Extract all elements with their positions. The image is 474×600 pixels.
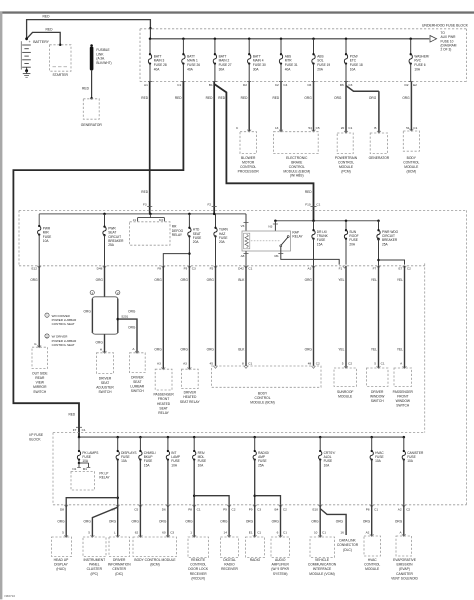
HTD SEAT fuse xyxy=(188,214,190,227)
generator xyxy=(83,99,99,119)
svg-text:ORG: ORG xyxy=(207,347,215,351)
svg-text:A2: A2 xyxy=(366,530,370,534)
svg-text:C1: C1 xyxy=(322,530,326,534)
sunroof module xyxy=(344,366,348,368)
svg-text:C2: C2 xyxy=(275,83,279,87)
svg-text:P8: P8 xyxy=(366,508,370,512)
svg-text:INFORMATION: INFORMATION xyxy=(108,563,131,567)
body control module BCM (middle) xyxy=(212,366,322,387)
svg-text:DOOR LOCK: DOOR LOCK xyxy=(188,567,209,571)
svg-text:C2: C2 xyxy=(283,508,287,512)
svg-text:CANISTER: CANISTER xyxy=(396,572,413,576)
svg-text:YEL: YEL xyxy=(397,347,403,351)
EVAP canister vent solenoid xyxy=(402,534,406,536)
svg-text:RED: RED xyxy=(43,15,51,19)
svg-text:ORG: ORG xyxy=(395,519,403,523)
svg-text:C1: C1 xyxy=(177,83,181,87)
TURN HAZ fuse xyxy=(215,214,217,227)
wire RED D2 to blower motor control processor xyxy=(248,82,250,132)
svg-text:F1: F1 xyxy=(339,266,343,270)
svg-text:E1: E1 xyxy=(249,530,253,534)
svg-text:D6: D6 xyxy=(340,83,344,87)
wire ORG A2 C2 to EVAP canister vent solenoid xyxy=(403,505,405,536)
svg-text:A8: A8 xyxy=(241,254,245,258)
svg-text:ORG: ORG xyxy=(154,278,162,282)
svg-text:MODULE: MODULE xyxy=(338,394,353,398)
svg-text:ORG: ORG xyxy=(305,278,313,282)
I/P lower bus wire xyxy=(79,436,405,438)
svg-text:N66710: N66710 xyxy=(5,594,16,598)
svg-text:PASSENGER: PASSENGER xyxy=(393,390,414,394)
svg-text:E12: E12 xyxy=(31,266,37,270)
svg-text:F8: F8 xyxy=(157,266,161,270)
svg-text:RECEIVER: RECEIVER xyxy=(190,572,207,576)
svg-text:VIEW: VIEW xyxy=(36,381,45,385)
svg-text:C2: C2 xyxy=(348,361,352,365)
svg-text:10: 10 xyxy=(314,530,318,534)
vehicle communication interface module VCIM xyxy=(318,535,322,537)
battery ground xyxy=(25,69,28,72)
svg-text:(RCDLR): (RCDLR) xyxy=(191,576,205,580)
INT LAMP fuse xyxy=(167,436,170,439)
CRTSY/ALDL fuse output xyxy=(319,460,321,505)
svg-text:RED: RED xyxy=(241,96,248,100)
wire ORG A3 to BCM pin 48 C2 xyxy=(313,266,315,366)
svg-text:1: 1 xyxy=(190,530,192,534)
svg-text:N1: N1 xyxy=(72,467,76,471)
HVAC fuse xyxy=(370,436,373,439)
svg-text:C1: C1 xyxy=(82,428,86,432)
pin F10 C1 xyxy=(311,206,317,208)
RAP relay switch feed N3 xyxy=(274,221,276,231)
DISPLAYS fuse xyxy=(116,436,119,439)
svg-text:F7: F7 xyxy=(373,266,377,270)
svg-text:SWITCH: SWITCH xyxy=(396,404,410,408)
PK LAMPS fuse to park lamp relay xyxy=(78,460,80,463)
svg-text:C3: C3 xyxy=(348,83,352,87)
svg-text:RED: RED xyxy=(305,190,312,194)
svg-text:C1: C1 xyxy=(283,530,287,534)
svg-text:D2: D2 xyxy=(405,83,409,87)
svg-text:ORG: ORG xyxy=(363,519,371,523)
I/P bus wire left xyxy=(38,214,40,226)
body control module BCM (top right) xyxy=(410,129,414,131)
branch 1 wire xyxy=(91,299,93,333)
RADIO fuse outputs xyxy=(254,460,256,505)
svg-text:CONTROL: CONTROL xyxy=(254,396,270,400)
svg-text:(IPC): (IPC) xyxy=(90,572,98,576)
svg-text:A1: A1 xyxy=(144,83,148,87)
svg-text:RED: RED xyxy=(82,87,90,91)
wire ORG F9 C3 to driver heated seat relay xyxy=(188,266,190,369)
PWR SEAT circuit breaker xyxy=(104,214,106,226)
underhood bus wire xyxy=(149,28,151,39)
svg-text:F10: F10 xyxy=(305,203,311,207)
wire RED B1 to F2 xyxy=(213,82,215,207)
svg-text:15A: 15A xyxy=(317,242,324,246)
svg-text:10A: 10A xyxy=(198,463,205,467)
CANISTER fuse output xyxy=(403,460,405,505)
svg-text:ORG: ORG xyxy=(305,347,313,351)
svg-text:C1: C1 xyxy=(374,508,378,512)
svg-text:60: 60 xyxy=(162,530,166,534)
svg-text:C3: C3 xyxy=(192,266,196,270)
svg-text:C2: C2 xyxy=(316,361,320,365)
svg-text:YEL: YEL xyxy=(338,347,344,351)
svg-text:(W/ 9 SPKR: (W/ 9 SPKR xyxy=(271,567,289,571)
RAP relay pin M1 wire to F1 xyxy=(281,247,339,265)
wire ORG D8 to HUD xyxy=(65,505,67,537)
pin F7 C1 xyxy=(76,426,82,428)
RFA fuse outputs xyxy=(193,460,195,505)
svg-text:DRIVER: DRIVER xyxy=(131,375,144,379)
pin F2 xyxy=(212,206,217,208)
wire ORG D6 to PCM pin 20 C1 xyxy=(345,82,347,133)
svg-text:PROCESSOR: PROCESSOR xyxy=(238,169,260,173)
svg-text:CONTROL: CONTROL xyxy=(364,563,380,567)
svg-text:(DLC): (DLC) xyxy=(343,548,352,552)
battery B+ node xyxy=(25,37,28,40)
wire ORG B4 C2 to audio amplifier xyxy=(280,505,282,537)
svg-text:OUT SIDE: OUT SIDE xyxy=(32,371,48,375)
svg-text:C1: C1 xyxy=(248,361,252,365)
wire ORG C6 to EBCM pin 54 C5 xyxy=(313,82,315,132)
wire ORG P9 C2 to digital radio receiver xyxy=(228,505,230,537)
SUN ROOF fuse xyxy=(345,221,347,230)
svg-text:F9: F9 xyxy=(184,266,188,270)
svg-text:BODY: BODY xyxy=(258,391,268,395)
svg-text:(HUD): (HUD) xyxy=(56,567,65,571)
wire ORG D7 to driver information center xyxy=(117,505,119,537)
pin C6 xyxy=(312,81,316,83)
pin B1 xyxy=(213,81,217,83)
svg-text:CLUSTER: CLUSTER xyxy=(87,567,103,571)
body control module BCM (bottom) xyxy=(139,535,143,537)
pin A1 xyxy=(148,81,152,83)
svg-text:RADIO: RADIO xyxy=(224,563,235,567)
svg-text:M1: M1 xyxy=(83,467,88,471)
head up display HUD xyxy=(64,535,68,537)
branch merge xyxy=(92,332,117,334)
svg-text:54: 54 xyxy=(308,126,312,130)
svg-text:COMMUNICATION: COMMUNICATION xyxy=(308,563,337,567)
svg-text:A3: A3 xyxy=(183,361,187,365)
svg-text:ORG: ORG xyxy=(207,278,215,282)
svg-text:P8: P8 xyxy=(188,508,192,512)
svg-text:5: 5 xyxy=(374,361,376,365)
svg-text:ORG: ORG xyxy=(154,347,162,351)
driver seat adjuster switch xyxy=(103,351,107,353)
svg-text:SWITCH: SWITCH xyxy=(98,390,112,394)
svg-text:INTERFACE: INTERFACE xyxy=(313,567,332,571)
svg-text:K3: K3 xyxy=(159,218,163,222)
svg-text:D42: D42 xyxy=(238,266,244,270)
wire ORG S201 to lumbar switch xyxy=(118,319,137,353)
svg-text:B4: B4 xyxy=(275,508,279,512)
svg-text:VEHICLE: VEHICLE xyxy=(315,558,330,562)
svg-text:BATTERY: BATTERY xyxy=(33,40,49,44)
PWR MIR fuse xyxy=(38,225,40,227)
svg-text:SEAT RELAY: SEAT RELAY xyxy=(180,400,201,404)
svg-text:RELAY: RELAY xyxy=(292,235,303,239)
wire ORG F8 to passenger heated seat relay xyxy=(162,266,164,369)
svg-text:LUMBAR: LUMBAR xyxy=(130,385,144,389)
svg-text:C6: C6 xyxy=(307,83,311,87)
wire ORG E10 to VCIM xyxy=(319,505,321,537)
svg-text:BLK: BLK xyxy=(238,278,245,282)
svg-text:FRONT: FRONT xyxy=(158,397,169,401)
wire RED C2 C4 to EBCM pin 13 xyxy=(280,82,282,132)
svg-text:UNDERHOOD FUSE BLOCK: UNDERHOOD FUSE BLOCK xyxy=(422,23,469,27)
INT LAMP fuse output xyxy=(167,460,169,505)
svg-text:ORG: ORG xyxy=(272,519,280,523)
svg-text:15A: 15A xyxy=(144,463,151,467)
svg-text:M1: M1 xyxy=(274,254,279,258)
svg-text:AUDIO: AUDIO xyxy=(275,558,286,562)
svg-text:HEATED: HEATED xyxy=(183,395,197,399)
svg-text:REMOTE: REMOTE xyxy=(191,558,206,562)
svg-text:EVAPORATIVE: EVAPORATIVE xyxy=(393,558,417,562)
CRTSY/ALDL fuse xyxy=(319,436,322,439)
ABS SOL fuse xyxy=(312,38,315,41)
note 2 w/ driver power lumbar control seat xyxy=(45,334,49,338)
svg-text:ORG: ORG xyxy=(185,519,193,523)
svg-text:PASSENGER: PASSENGER xyxy=(153,393,174,397)
outside rear view mirror switch xyxy=(37,345,41,347)
svg-text:H: H xyxy=(100,348,102,352)
svg-text:5: 5 xyxy=(88,530,90,534)
svg-text:DATA LINK: DATA LINK xyxy=(339,539,356,543)
svg-text:ORG: ORG xyxy=(220,519,228,523)
RADIO/AMP fuse xyxy=(253,436,256,439)
svg-text:RED: RED xyxy=(206,96,213,100)
svg-text:RELAY: RELAY xyxy=(172,233,183,237)
BATT MAIN 3 fuse xyxy=(149,38,152,41)
wire ORG to data link connector xyxy=(320,509,346,535)
svg-text:C1: C1 xyxy=(248,266,252,270)
svg-text:C1: C1 xyxy=(348,126,352,130)
svg-text:A: A xyxy=(400,530,403,534)
svg-text:GENERATOR: GENERATOR xyxy=(81,123,103,127)
svg-text:CONTROL: CONTROL xyxy=(190,563,206,567)
svg-text:C1: C1 xyxy=(197,508,201,512)
svg-text:ORG: ORG xyxy=(84,309,92,313)
svg-text:YEL: YEL xyxy=(371,278,377,282)
svg-text:RED: RED xyxy=(218,96,225,100)
svg-text:SEAT: SEAT xyxy=(159,406,167,410)
svg-text:(EVAP): (EVAP) xyxy=(399,567,410,571)
remote control door lock receiver RCDLR xyxy=(192,535,196,537)
svg-text:RECEIVER: RECEIVER xyxy=(221,567,238,571)
svg-text:ORG: ORG xyxy=(246,519,254,523)
I/P block bottom pins xyxy=(64,505,68,507)
svg-text:RELAY: RELAY xyxy=(158,411,169,415)
pin F3 xyxy=(147,206,152,208)
svg-text:20A: 20A xyxy=(219,240,226,244)
svg-text:E2: E2 xyxy=(413,83,417,87)
svg-text:CONNECTOR: CONNECTOR xyxy=(337,543,359,547)
svg-text:MIRROR: MIRROR xyxy=(33,385,47,389)
powertrain control module PCM xyxy=(344,131,348,133)
svg-text:ORG: ORG xyxy=(402,96,410,100)
svg-text:30A: 30A xyxy=(219,67,226,71)
RAP relay xyxy=(242,231,291,251)
CHMSL fuse output xyxy=(139,460,141,505)
svg-text:ORG: ORG xyxy=(96,341,104,345)
svg-text:ORG: ORG xyxy=(159,519,167,523)
wire BLK D42 C1 to BCM pin 8 C1 xyxy=(245,266,247,366)
svg-text:MODULE (VCIM): MODULE (VCIM) xyxy=(309,572,334,576)
svg-text:DRIVER: DRIVER xyxy=(99,376,112,380)
svg-text:ORG: ORG xyxy=(57,519,65,523)
note 1 w/o driver power lumbar control seat xyxy=(45,313,49,317)
wire ORG D6 to BCM pin 60 C3 xyxy=(167,505,169,537)
svg-text:REAR: REAR xyxy=(35,376,45,380)
wire ORG F5 to BCM pin 45 xyxy=(215,266,217,366)
svg-text:ORG: ORG xyxy=(181,278,189,282)
driver information center DIC xyxy=(116,535,120,537)
PWR WDO breaker outputs xyxy=(378,239,380,266)
svg-text:C1: C1 xyxy=(413,126,417,130)
pin C2 C4 xyxy=(279,81,283,83)
audio amplifier xyxy=(279,535,283,537)
HTD SEAT fuse output junction xyxy=(188,236,190,265)
svg-text:BLK/WHT): BLK/WHT) xyxy=(96,61,111,65)
passenger front window switch xyxy=(403,366,407,368)
DISPLAYS fuse outputs D8 D7 xyxy=(117,460,119,505)
svg-text:C2: C2 xyxy=(406,508,410,512)
wire ORG P9 C3 to radio xyxy=(254,505,256,537)
svg-text:C1: C1 xyxy=(257,530,261,534)
svg-text:30A: 30A xyxy=(253,67,260,71)
digital radio receiver xyxy=(227,535,231,537)
svg-text:F5: F5 xyxy=(210,266,214,270)
svg-text:25A: 25A xyxy=(258,463,265,467)
wire ORG E12 to mirror switch xyxy=(38,266,40,347)
svg-text:62: 62 xyxy=(135,530,139,534)
svg-text:(W/ ABS): (W/ ABS) xyxy=(290,174,304,178)
svg-text:RED: RED xyxy=(141,96,148,100)
svg-text:ORG: ORG xyxy=(181,347,189,351)
svg-text:SWITCH: SWITCH xyxy=(33,390,47,394)
svg-text:ADJUSTER: ADJUSTER xyxy=(96,386,114,390)
svg-text:MODULE (BCM): MODULE (BCM) xyxy=(250,401,275,405)
svg-text:EMISSION: EMISSION xyxy=(396,563,413,567)
svg-text:(DIC): (DIC) xyxy=(115,572,123,576)
svg-text:RED: RED xyxy=(68,413,75,417)
pin D2 xyxy=(247,81,251,83)
wire ORG D2 E2 to BCM pin 51 C1 xyxy=(410,82,412,131)
BATT MAIN 2 fuse xyxy=(214,38,217,41)
svg-text:ORG: ORG xyxy=(334,96,342,100)
svg-text:RED: RED xyxy=(272,96,279,100)
svg-text:5: 5 xyxy=(62,530,64,534)
svg-text:B1: B1 xyxy=(209,83,213,87)
svg-text:YEL: YEL xyxy=(338,278,344,282)
wire ORG C5 to BCM pin 62 xyxy=(139,505,141,537)
svg-text:14: 14 xyxy=(224,530,228,534)
svg-text:A3: A3 xyxy=(157,361,161,365)
generator (right) xyxy=(377,131,381,133)
starter xyxy=(50,45,72,71)
svg-text:N3: N3 xyxy=(268,225,272,229)
CANISTER fuse xyxy=(403,436,406,439)
svg-text:INSTRUMENT: INSTRUMENT xyxy=(83,558,105,562)
svg-text:DRIVER: DRIVER xyxy=(371,390,384,394)
svg-text:YEL: YEL xyxy=(371,347,377,351)
svg-text:CONTROL SEAT: CONTROL SEAT xyxy=(52,343,75,347)
svg-text:SEAT: SEAT xyxy=(133,380,141,384)
svg-text:F7: F7 xyxy=(73,428,77,432)
branch 2 wire xyxy=(117,299,119,333)
svg-text:VENT SOLENOID: VENT SOLENOID xyxy=(391,576,418,580)
wire ORG P8 C1 to RCDLR xyxy=(193,505,195,537)
svg-text:A2: A2 xyxy=(398,508,402,512)
svg-text:D2: D2 xyxy=(243,83,247,87)
svg-text:10A: 10A xyxy=(324,463,331,467)
svg-text:HEATED: HEATED xyxy=(157,402,171,406)
svg-text:D48: D48 xyxy=(97,266,103,270)
svg-text:25A: 25A xyxy=(108,243,115,247)
wire YEL F7 to driver window switch xyxy=(378,266,380,368)
svg-text:P9: P9 xyxy=(249,508,253,512)
svg-text:MODULE: MODULE xyxy=(365,567,380,571)
RAP relay coil feed V3 xyxy=(245,214,247,231)
svg-text:S201: S201 xyxy=(121,315,128,319)
svg-text:51: 51 xyxy=(406,126,410,130)
svg-text:A: A xyxy=(400,361,403,365)
svg-text:RED: RED xyxy=(175,96,182,100)
svg-text:ORG: ORG xyxy=(369,96,377,100)
WASHER/RVC fuse xyxy=(409,38,412,41)
svg-text:25A: 25A xyxy=(382,242,389,246)
wire ORG C3 branch to generator pin B xyxy=(346,86,379,92)
svg-text:WINDOW: WINDOW xyxy=(396,399,411,403)
svg-text:J1: J1 xyxy=(133,218,137,222)
wire RED C1 feeder to I/P fuse block xyxy=(13,82,183,427)
svg-text:RELAY: RELAY xyxy=(99,476,110,480)
svg-text:SEAT: SEAT xyxy=(101,381,109,385)
wire YEL E7 C2 to passenger front window switch xyxy=(404,266,406,368)
svg-text:C5: C5 xyxy=(316,126,320,130)
driver heated seat relay xyxy=(188,367,192,369)
svg-text:P9: P9 xyxy=(223,508,227,512)
RR defog relay xyxy=(130,222,170,245)
svg-text:D6: D6 xyxy=(162,508,166,512)
svg-text:L: L xyxy=(114,530,116,534)
svg-text:10A: 10A xyxy=(375,459,382,463)
CHMSL/BKUP fuse xyxy=(139,436,142,439)
splice S201 xyxy=(117,318,120,321)
page left border xyxy=(0,11,2,599)
rear defog feed J1 K3 xyxy=(149,214,151,218)
svg-text:HVAC: HVAC xyxy=(368,558,378,562)
wire YEL F1 to sunroof module xyxy=(345,266,347,368)
svg-text:YEL: YEL xyxy=(397,278,403,282)
svg-text:V3: V3 xyxy=(241,224,245,228)
svg-text:C3: C3 xyxy=(257,508,261,512)
svg-text:G: G xyxy=(34,342,37,346)
BATT MAIN 1 fuse xyxy=(182,38,185,41)
svg-text:RED: RED xyxy=(46,27,54,31)
svg-text:ORG: ORG xyxy=(30,278,38,282)
svg-text:10A: 10A xyxy=(171,463,178,467)
wire RED battery to starter xyxy=(27,32,61,44)
I/P fuse block outline xyxy=(19,209,467,211)
svg-text:C1: C1 xyxy=(381,361,385,365)
svg-text:C2: C2 xyxy=(407,266,411,270)
fusible link A 3A BLK/WHT xyxy=(90,44,93,47)
